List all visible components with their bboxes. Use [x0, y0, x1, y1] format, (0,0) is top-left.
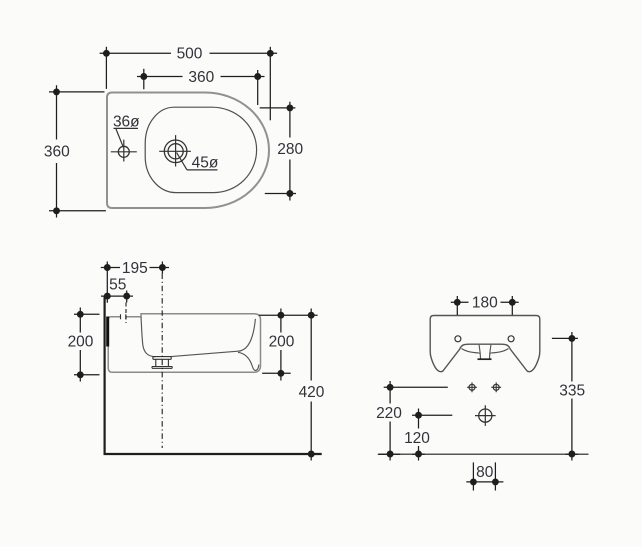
svg-text:200: 200: [269, 334, 295, 351]
svg-text:500: 500: [177, 46, 203, 63]
svg-text:360: 360: [188, 69, 214, 86]
dimension 335 (rear): [552, 332, 578, 461]
dimension 180 (rear): [451, 296, 519, 315]
faucet centerline (dashed, side): [125, 303, 127, 324]
rear rim front edge right: [491, 349, 508, 353]
dimension 80 (rear bottom): [466, 462, 503, 490]
dimension 220 (rear): [378, 381, 448, 461]
centerline (dash-dot, drain axis): [161, 274, 163, 449]
svg-text:335: 335: [559, 382, 585, 399]
drain hole 45 dia inner: [168, 144, 183, 159]
wall mounting strip (side, thick black): [106, 317, 109, 347]
dimension 195 (side): [101, 262, 169, 303]
rear small fixing hole right: [491, 382, 501, 392]
svg-text:80: 80: [476, 464, 494, 481]
label 45ø: [177, 153, 219, 172]
svg-text:195: 195: [122, 260, 148, 277]
floor line (rear view): [379, 453, 589, 455]
dimension 120 (rear): [412, 409, 452, 461]
label 36ø: [113, 114, 140, 148]
bidet body outline (side): [108, 314, 260, 373]
rear small fixing hole left: [467, 382, 477, 392]
bowl inner front wall (side): [141, 317, 155, 357]
faucet hole gap ticks on deck: [121, 314, 126, 319]
bowl back trumpet lower (side): [238, 352, 259, 370]
svg-text:280: 280: [277, 141, 303, 158]
bowl bottom slope (side): [171, 351, 238, 356]
bidet rear outline: [430, 316, 540, 372]
svg-text:220: 220: [376, 405, 402, 422]
bidet body outline (plan): [107, 93, 269, 209]
dimension 360 (plan depth, left): [49, 85, 106, 217]
overflow spout bottom (dark): [478, 358, 492, 360]
dimension 420 (side height): [305, 309, 319, 461]
rear mounting hole left: [455, 336, 461, 342]
drain flange top (side): [153, 357, 171, 360]
rear mounting hole right: [508, 336, 514, 342]
drain hole 45 dia outer: [164, 140, 187, 163]
floor line (side view): [104, 453, 322, 455]
rear waste outlet hole: [475, 405, 496, 426]
svg-text:360: 360: [44, 144, 70, 161]
wall line: [103, 297, 105, 456]
drain bottom flange (side): [152, 367, 172, 369]
svg-text:200: 200: [68, 334, 94, 351]
svg-text:55: 55: [109, 276, 126, 293]
drain hole crosshair: [159, 135, 191, 166]
faucet hole 36 dia: [118, 146, 129, 157]
bowl rim (plan): [145, 107, 256, 192]
bowl back trumpet upper (side): [238, 319, 255, 351]
dimension 360 (bowl width, plan): [137, 69, 265, 105]
drain body (side): [156, 359, 169, 366]
faucet hole crosshair: [111, 140, 137, 162]
dimension 200 (side right): [259, 309, 318, 381]
svg-text:180: 180: [472, 295, 498, 312]
overflow spout (rear center): [479, 345, 491, 359]
svg-text:45ø: 45ø: [192, 154, 219, 171]
svg-text:120: 120: [404, 430, 430, 447]
dimension 280 (bowl depth, plan right): [260, 102, 296, 201]
dimension 200 (side left): [74, 308, 100, 382]
rear rim front edge left: [462, 349, 479, 353]
dimension 500 (plan width): [100, 47, 278, 121]
svg-text:420: 420: [299, 384, 325, 401]
